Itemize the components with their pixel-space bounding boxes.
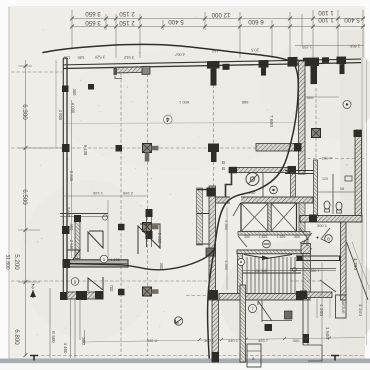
right exterior wall hatched — [355, 130, 362, 222]
east wall of lower room x=243 — [240, 285, 246, 362]
elevator shaft 1 — [241, 203, 268, 232]
dimension text rows (top, rotated 180) — [85, 9, 360, 26]
staircase treads — [247, 257, 295, 293]
fan room left wall with jog — [226, 173, 232, 197]
svg-text:300: 300 — [294, 235, 300, 239]
svg-text:AUFZUG: AUFZUG — [341, 300, 345, 314]
bottom scanner band — [0, 359, 370, 364]
svg-text:400: 400 — [69, 224, 74, 232]
grid horizontal row 3 — [11, 280, 209, 282]
wall pilaster grid row3 — [62, 226, 70, 234]
svg-text:300: 300 — [81, 337, 86, 345]
column x341 with stem — [337, 56, 347, 74]
lower partitions — [261, 300, 263, 322]
storage box bottom — [247, 344, 261, 367]
stair bottom wall — [219, 294, 310, 301]
grid vertical D — [213, 68, 215, 197]
svg-text:4 000: 4 000 — [71, 103, 76, 114]
marker curve main — [43, 44, 298, 358]
stair mid landing rail — [242, 272, 301, 274]
svg-text:4 057: 4 057 — [174, 52, 185, 57]
left interior dim chain — [71, 100, 73, 258]
pier wall x=77 hatched — [75, 217, 80, 259]
right rooms: WC block — [285, 130, 362, 223]
hatched beam on top wall — [114, 66, 151, 78]
right middle room with doors — [296, 222, 370, 300]
fan room right wall — [291, 173, 296, 198]
column T at x213 top wall — [207, 61, 230, 86]
svg-text:1 825: 1 825 — [259, 235, 268, 239]
stair-west wall complex — [197, 186, 219, 300]
svg-text:2 855: 2 855 — [349, 44, 360, 49]
svg-text:2 150: 2 150 — [119, 10, 135, 17]
svg-text:1 100: 1 100 — [318, 9, 334, 16]
svg-text:300: 300 — [72, 89, 77, 97]
grid horizontal stub top-left — [11, 71, 62, 73]
zigzag marks — [88, 231, 103, 252]
corner block x290 — [288, 57, 298, 67]
column at x262 top wall — [259, 60, 269, 76]
elevator shaft 2 — [271, 203, 297, 232]
door gap in cross wall — [230, 197, 241, 204]
stair top wall — [237, 250, 310, 254]
svg-text:530: 530 — [77, 55, 84, 60]
stair direction arrow — [244, 255, 292, 259]
left entry area — [60, 100, 160, 300]
grid vertical E — [315, 88, 317, 160]
svg-text:2 245: 2 245 — [122, 191, 133, 196]
stair left wall — [238, 254, 243, 294]
svg-text:4 700: 4 700 — [352, 258, 358, 270]
svg-text:12 000: 12 000 — [211, 11, 230, 18]
svg-text:300 1: 300 1 — [317, 223, 328, 228]
stair right wall — [301, 244, 311, 254]
shaft divider wall — [268, 203, 271, 232]
misc small texts — [147, 95, 344, 343]
svg-text:6.800: 6.800 — [13, 329, 20, 345]
grid horizontal row 2 — [11, 147, 298, 149]
pump symbol — [246, 173, 259, 186]
svg-text:4 800: 4 800 — [58, 110, 63, 121]
top exterior wall (sheared for scan skew) — [63, 59, 361, 68]
svg-text:5 400: 5 400 — [344, 16, 360, 23]
columns row y=227 — [118, 224, 125, 231]
svg-text:390 7: 390 7 — [311, 269, 320, 273]
circled note — [100, 255, 108, 263]
svg-text:330 U: 330 U — [147, 338, 158, 343]
shaft bottom wall — [238, 232, 310, 236]
bottom-left verticals and section lines — [50, 288, 85, 358]
fan room partition — [262, 173, 264, 198]
svg-text:20.5: 20.5 — [250, 48, 259, 53]
wall block x89 — [88, 84, 94, 90]
svg-text:700: 700 — [109, 285, 114, 293]
svg-text:4 400: 4 400 — [63, 343, 68, 355]
small dim text row above top wall — [63, 44, 360, 62]
corridor door swing right — [302, 233, 312, 249]
svg-text:5.200: 5.200 — [13, 254, 20, 270]
svg-text:200 P: 200 P — [322, 156, 333, 161]
door swing Z right — [321, 228, 330, 243]
svg-text:1 200: 1 200 — [318, 304, 324, 316]
svg-text:6 600: 6 600 — [248, 18, 264, 25]
svg-text:E 500: E 500 — [51, 331, 56, 343]
wall pilaster left top — [62, 86, 69, 93]
svg-text:31.800: 31.800 — [4, 254, 10, 270]
svg-text:300: 300 — [244, 235, 250, 239]
grid horizontal row right — [302, 158, 364, 160]
svg-text:3 520: 3 520 — [94, 55, 105, 60]
svg-text:1 500: 1 500 — [324, 327, 330, 339]
svg-text:300: 300 — [293, 338, 300, 343]
svg-text:2 400: 2 400 — [157, 233, 162, 244]
svg-text:B: B — [222, 160, 225, 165]
wall y=218 x=300-362 — [300, 216, 362, 223]
svg-text:7 600: 7 600 — [268, 115, 274, 127]
svg-text:6.500: 6.500 — [21, 189, 28, 205]
beam bar y=263 — [63, 260, 128, 267]
marker curve lower horizontal — [65, 251, 213, 270]
grid bubbles — [164, 101, 352, 326]
section marker 2 top — [30, 282, 36, 298]
small pump — [270, 186, 278, 194]
svg-text:5 400: 5 400 — [168, 18, 184, 25]
wall x=149 with blocks — [146, 209, 148, 247]
lower-left wall bar y=295 — [60, 292, 67, 300]
landing edge line right — [290, 268, 336, 293]
columns row y=292 — [118, 289, 125, 296]
svg-text:1 605: 1 605 — [110, 257, 121, 262]
hatched bar at y147 x256-300 — [256, 144, 299, 152]
svg-text:453 7: 453 7 — [258, 338, 269, 343]
free-standing columns row y=148 — [116, 145, 123, 152]
svg-text:2 595: 2 595 — [69, 240, 74, 251]
svg-text:120: 120 — [322, 177, 328, 181]
bottom part of stair-west wall — [212, 300, 219, 362]
svg-text:3 600: 3 600 — [66, 207, 71, 218]
big T column x310 — [303, 57, 329, 84]
grid horizontal stub mid — [186, 295, 210, 297]
main cross wall y=197-203 — [213, 197, 313, 203]
grid vertical B — [120, 68, 122, 356]
svg-text:1 150: 1 150 — [301, 45, 312, 50]
svg-text:1 380: 1 380 — [224, 260, 229, 271]
svg-text:240 1: 240 1 — [228, 338, 239, 343]
column with X at x316 y133 — [312, 129, 321, 138]
WC partition — [332, 174, 334, 214]
svg-text:2 380: 2 380 — [224, 220, 229, 231]
svg-text:1 140: 1 140 — [92, 191, 103, 196]
svg-text:3 650: 3 650 — [85, 10, 101, 17]
wall x=315 vertical — [314, 160, 318, 215]
stairwest dim chain — [224, 207, 229, 290]
svg-text:600: 600 — [307, 95, 314, 100]
svg-text:9 138: 9 138 — [83, 145, 88, 156]
grid horizontal bottom — [30, 355, 364, 357]
svg-text:688: 688 — [241, 100, 248, 105]
left exterior wall — [62, 58, 64, 300]
top dimension lines and ticks — [72, 10, 365, 58]
door swing lower left room — [258, 301, 272, 321]
fan room (top of stair block) — [222, 160, 296, 198]
svg-text:3 512: 3 512 — [123, 55, 134, 60]
shaft dim row — [244, 235, 300, 239]
svg-text:08: 08 — [340, 187, 344, 191]
svg-text:300 1: 300 1 — [204, 338, 215, 343]
bottom rooms below stair — [240, 285, 292, 367]
dashed grid lines — [11, 68, 364, 356]
section tick bottom right — [331, 356, 339, 361]
small bubble in stair — [238, 259, 245, 266]
svg-text:4 300: 4 300 — [357, 304, 363, 316]
right wall x=343 hatched — [341, 222, 347, 300]
bottom dim row ticks — [198, 337, 331, 342]
right dim verticals — [321, 262, 323, 345]
svg-text:600 1: 600 1 — [178, 100, 189, 105]
svg-text:3 650: 3 650 — [85, 19, 101, 26]
wall y=171 x=285-316 — [285, 170, 316, 172]
left scan border line — [8, 7, 10, 360]
right-centre wall x=300 vertical hatched — [299, 61, 306, 174]
wall right of shaft2 — [299, 203, 305, 232]
faint drawing edge lines — [56, 58, 367, 345]
svg-text:1 300: 1 300 — [304, 234, 310, 246]
svg-text:1 100: 1 100 — [318, 16, 334, 23]
left interior dim texts — [58, 89, 164, 293]
elevator machine box — [336, 295, 347, 318]
sink — [345, 176, 352, 181]
wall pilaster grid row2 — [62, 144, 70, 152]
corridor door swing left — [238, 236, 247, 247]
section tick bottom left — [30, 356, 38, 361]
ramp diagonal — [347, 242, 369, 300]
svg-text:1 825: 1 825 — [277, 235, 286, 239]
room bottom wall y=258 — [296, 255, 346, 257]
tick slashes on dim lines — [70, 17, 365, 29]
grid vertical C — [147, 68, 149, 356]
left dimension line and ticks — [18, 60, 63, 356]
svg-text:8: 8 — [327, 237, 330, 243]
svg-text:2 345: 2 345 — [69, 171, 74, 182]
bottom right corner structures — [300, 262, 346, 361]
left dimension chain texts (rotated) — [4, 104, 28, 345]
bottom-left vertical dim texts — [51, 331, 86, 354]
wall y=197 from left wall to x152 — [63, 195, 147, 197]
door swing Z left — [300, 228, 308, 243]
svg-text:B: B — [222, 166, 225, 171]
fan room top wall — [229, 168, 295, 173]
column T x213 y148 — [208, 144, 219, 163]
door leaf — [233, 203, 241, 216]
svg-text:2 150: 2 150 — [119, 19, 135, 26]
toilet 1 — [324, 201, 330, 209]
svg-text:OK 158: OK 158 — [255, 269, 267, 273]
wall y=213.5 — [60, 213, 108, 215]
right vertical dim texts — [268, 115, 363, 339]
toilet 2 — [336, 202, 342, 210]
